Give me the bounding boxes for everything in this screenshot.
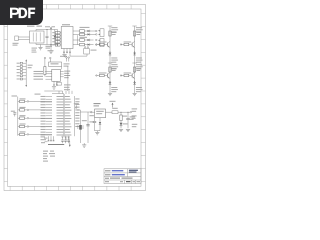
wire — [36, 30, 58, 32]
pin label — [41, 126, 46, 127]
net label — [75, 118, 79, 119]
label block right — [132, 108, 138, 127]
net name — [65, 120, 70, 123]
oscillator module — [49, 62, 62, 67]
pin wire — [46, 78, 52, 80]
node pad — [120, 75, 121, 76]
pin label — [34, 73, 44, 74]
net wire with label — [50, 27, 52, 46]
pin label — [41, 104, 46, 105]
PDF badge — [0, 0, 43, 25]
pin wire — [46, 112, 52, 114]
node — [121, 112, 122, 113]
wire gnd rail — [48, 143, 64, 145]
label block — [43, 151, 55, 162]
pin label — [34, 79, 44, 80]
wire — [73, 30, 80, 32]
net name — [65, 106, 71, 109]
label block — [136, 87, 143, 92]
wire — [29, 126, 52, 128]
label — [35, 94, 41, 95]
net label — [75, 126, 79, 127]
node pad — [96, 44, 97, 45]
pin wire — [46, 98, 52, 100]
ground — [126, 128, 130, 130]
net label — [75, 120, 79, 121]
wire — [44, 59, 46, 67]
supply tick — [132, 26, 142, 32]
wire — [44, 90, 62, 92]
node pads — [44, 57, 51, 59]
net name — [65, 101, 72, 104]
LED D2 — [80, 30, 94, 33]
pin wire — [46, 101, 52, 103]
node pad — [96, 30, 98, 32]
wire — [58, 91, 60, 94]
supply tick — [108, 26, 118, 32]
resistor R12 — [133, 31, 141, 36]
ground — [52, 86, 56, 88]
net name — [65, 134, 72, 137]
wire column — [109, 26, 111, 93]
pin wire — [60, 71, 63, 73]
pin label — [41, 107, 46, 108]
ground — [38, 45, 42, 50]
net name — [57, 134, 64, 137]
net label — [75, 98, 79, 99]
net name — [57, 103, 64, 106]
pin wire — [46, 104, 52, 106]
wire — [106, 111, 113, 113]
wire — [57, 30, 59, 45]
pin label — [41, 129, 46, 130]
pin wire — [46, 126, 52, 128]
wire — [29, 109, 52, 111]
supply tick — [132, 63, 142, 69]
connector X3 — [84, 47, 97, 54]
decoupling caps C12-C14 — [61, 136, 70, 143]
pin wire — [46, 107, 52, 109]
pin wire — [46, 96, 52, 98]
pin label — [34, 76, 44, 77]
net name — [65, 131, 71, 134]
IC U1 — [61, 24, 73, 48]
node pad — [96, 75, 97, 76]
wire — [118, 111, 130, 113]
net label — [75, 104, 79, 105]
wire — [36, 43, 58, 45]
resistor R3 — [52, 38, 61, 40]
wire — [62, 91, 64, 94]
wire — [95, 130, 101, 132]
diode D1 — [53, 30, 56, 45]
net name — [65, 98, 71, 101]
net label — [75, 101, 79, 102]
capacitor C10 — [93, 118, 96, 131]
wire — [29, 100, 52, 102]
sheet border frame — [4, 5, 146, 191]
pin label — [41, 101, 46, 102]
capacitor C1 — [46, 30, 49, 45]
diode — [109, 81, 112, 85]
bottom pins — [66, 136, 69, 140]
resistor R30 — [120, 112, 127, 120]
resistor R23 — [18, 124, 27, 128]
label C values — [46, 46, 54, 51]
pin wire — [46, 123, 52, 125]
wire rail — [12, 96, 18, 136]
pin label — [41, 112, 46, 113]
wire — [29, 133, 52, 135]
label block — [111, 87, 118, 92]
base resistor — [96, 73, 107, 77]
wire — [92, 111, 95, 113]
net name — [65, 117, 72, 120]
node pad — [27, 126, 29, 128]
resistor R1 — [52, 32, 61, 34]
node VCC arrow — [110, 101, 116, 108]
node pad — [120, 44, 121, 45]
wire — [80, 112, 88, 143]
ground — [95, 131, 99, 135]
pin label — [34, 71, 44, 72]
ground — [119, 128, 123, 130]
node pad — [27, 134, 29, 136]
net name — [57, 117, 64, 120]
pin wire — [45, 71, 52, 73]
wire — [61, 67, 63, 70]
wire — [73, 44, 80, 46]
label block — [64, 84, 71, 90]
resistor R13 — [133, 67, 141, 72]
transistor Q1 — [108, 41, 111, 47]
pin label — [41, 118, 46, 119]
pin label — [41, 132, 46, 133]
resistor R14 — [44, 67, 46, 77]
pin wire — [46, 120, 52, 122]
net name — [65, 125, 72, 128]
net name — [57, 101, 64, 104]
diode — [133, 52, 136, 56]
node pad — [90, 111, 92, 113]
resistor R22 — [18, 115, 27, 119]
node VIN — [47, 29, 48, 30]
node arrow — [57, 44, 59, 46]
connector pads bottom left — [41, 136, 55, 143]
net name — [57, 123, 64, 126]
supply tick — [108, 63, 118, 69]
ground — [49, 45, 53, 54]
node pad — [27, 101, 29, 103]
pin wire — [46, 118, 52, 120]
pin wire — [46, 129, 52, 131]
ground — [82, 143, 86, 147]
pin wire — [46, 131, 52, 133]
ground arrow — [69, 145, 71, 147]
node pads top right — [66, 57, 70, 62]
net name — [57, 131, 64, 134]
LED D3 — [80, 33, 94, 36]
net name — [57, 120, 64, 123]
resistor R5 — [52, 44, 61, 46]
connector X1 — [98, 29, 104, 37]
bus net U2 — [52, 94, 75, 137]
diode — [109, 52, 112, 56]
net name — [65, 103, 70, 106]
capacitor C9 — [86, 115, 94, 126]
label block — [111, 58, 118, 63]
wire column — [134, 26, 136, 93]
net name — [65, 109, 72, 112]
pin wire — [46, 134, 52, 136]
IC U3 bottom pins — [53, 81, 58, 85]
LED D7 — [120, 121, 128, 129]
resistor R10 — [109, 31, 117, 36]
net name — [57, 114, 64, 117]
pin wire — [60, 76, 63, 78]
label net — [45, 25, 55, 28]
pin label — [41, 123, 46, 124]
ground — [133, 92, 137, 94]
connector X2 — [98, 39, 104, 47]
transformer T1 — [27, 26, 44, 43]
base resistor — [121, 73, 132, 77]
label — [64, 63, 70, 66]
wire — [29, 117, 52, 119]
capacitor C8 — [11, 111, 16, 117]
node pad — [74, 103, 79, 108]
pin wire — [60, 73, 63, 75]
transistor Q3 — [132, 41, 135, 47]
pin label — [41, 96, 46, 97]
resistor R24 — [18, 131, 27, 135]
resistor R4 — [52, 41, 61, 43]
top pins — [66, 91, 72, 94]
wire — [70, 53, 87, 56]
net name — [57, 112, 64, 115]
resistor R20 — [18, 98, 27, 102]
LED D5 — [80, 43, 94, 46]
transistor Q2 — [108, 72, 111, 78]
pin label — [41, 99, 46, 100]
wire — [67, 66, 69, 91]
diode — [133, 81, 136, 85]
inductor L1 — [112, 108, 118, 114]
resistor network RN1 — [17, 59, 33, 87]
net name — [57, 98, 64, 101]
connector J1 — [13, 36, 23, 46]
wire — [69, 141, 70, 145]
transistor Q4 — [132, 72, 135, 78]
pin label — [41, 110, 46, 111]
IC U1 bottom pins — [63, 49, 71, 54]
label block — [136, 58, 143, 63]
regulator U4 — [95, 109, 106, 118]
node pad — [96, 39, 98, 41]
pin label — [41, 134, 46, 135]
net name — [65, 123, 71, 126]
resistor R2 — [52, 35, 61, 37]
resistor R21 — [18, 107, 27, 111]
label block — [64, 71, 70, 79]
wire — [94, 33, 96, 35]
wire — [77, 110, 80, 143]
label — [80, 27, 90, 38]
pin wire — [46, 73, 52, 75]
net label — [75, 123, 79, 124]
ground — [62, 53, 66, 57]
node pad — [130, 111, 132, 113]
net name — [57, 106, 64, 109]
node pad — [96, 34, 98, 36]
wire — [22, 36, 30, 38]
pin wire — [46, 109, 52, 111]
label — [60, 56, 67, 57]
net name — [57, 128, 64, 131]
pin wire — [46, 115, 52, 117]
net label — [75, 115, 79, 116]
wire — [73, 39, 80, 41]
net label — [75, 107, 79, 108]
node pad — [27, 109, 29, 111]
LED D4 — [80, 39, 94, 42]
node pad — [96, 44, 98, 46]
capacitor C11 — [126, 112, 135, 128]
wire — [73, 33, 80, 35]
base resistor — [121, 42, 132, 46]
wire — [88, 111, 93, 113]
jumper JP1 — [57, 83, 62, 86]
label T1 values — [32, 48, 38, 53]
ground — [108, 92, 112, 94]
base resistor — [96, 42, 107, 46]
net name — [57, 95, 64, 98]
wire — [22, 39, 30, 41]
section label — [94, 103, 101, 106]
pin label — [41, 121, 46, 122]
net name — [65, 112, 70, 115]
net name — [57, 125, 64, 128]
wire — [49, 59, 51, 62]
pin wire — [46, 75, 52, 77]
net name — [65, 114, 71, 117]
diode D6 — [99, 118, 101, 131]
net name — [65, 128, 70, 131]
title block — [104, 169, 141, 184]
node pad — [27, 117, 29, 119]
IC U3 — [52, 69, 61, 81]
crystal Y1 — [78, 120, 87, 129]
wire — [77, 35, 79, 44]
resistor R11 — [109, 67, 117, 72]
pin label — [41, 115, 46, 116]
net name — [57, 109, 64, 112]
net name — [65, 95, 70, 98]
wire — [94, 30, 96, 32]
net label — [75, 109, 79, 110]
net label — [75, 112, 79, 113]
